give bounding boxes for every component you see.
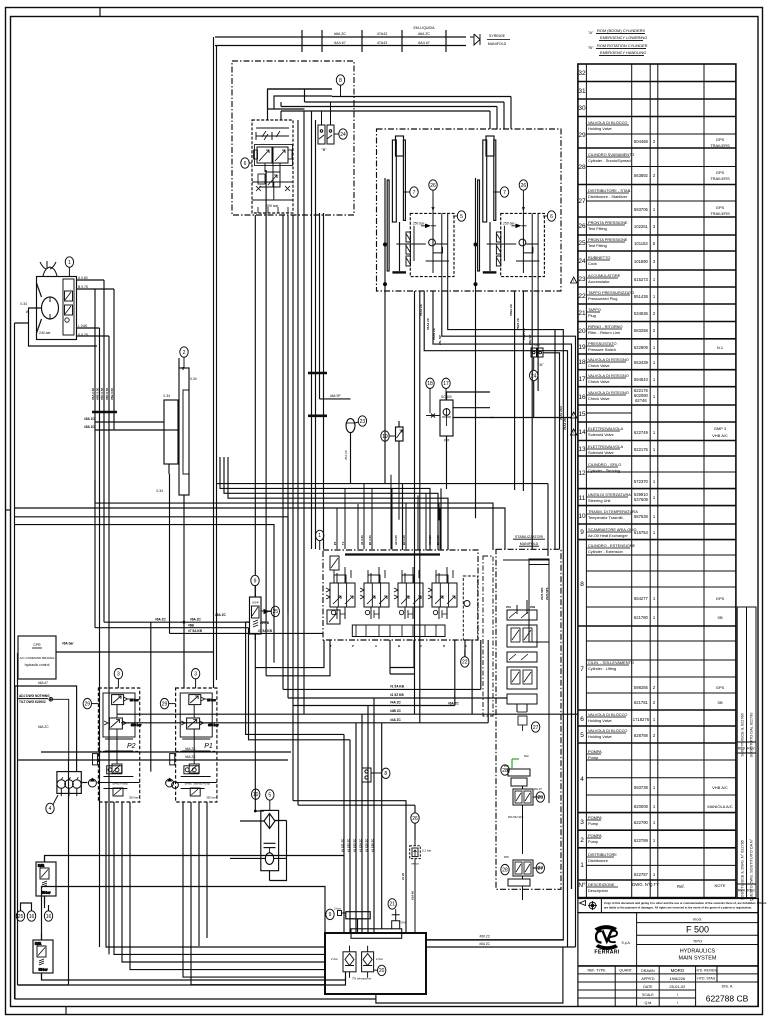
- svg-text:2: 2: [653, 685, 656, 690]
- svg-text:#6A ZC: #6A ZC: [479, 942, 490, 946]
- balloon 18: [426, 378, 434, 413]
- svg-text:MAIN SYSTEM: MAIN SYSTEM: [679, 956, 717, 962]
- svg-text:2: 2: [653, 173, 656, 178]
- svg-text:A 0.60: A 0.60: [78, 276, 88, 280]
- svg-text:#5B: #5B: [530, 605, 535, 609]
- table desc underline strokes: [587, 125, 631, 887]
- title block texts: [587, 917, 748, 1006]
- bank bottom plate: [352, 625, 445, 637]
- wire pipe top B: [215, 45, 466, 47]
- svg-text:9: 9: [329, 912, 332, 918]
- svg-text:Accumulator: Accumulator: [588, 279, 610, 284]
- svg-text:622787: 622787: [634, 872, 649, 877]
- svg-text:Plug: Plug: [588, 313, 596, 318]
- svg-text:"B": "B": [588, 45, 594, 50]
- check valve SC600 (items 17/18): [426, 392, 494, 489]
- svg-text:1: 1: [653, 360, 656, 365]
- wire right R1: [426, 291, 563, 940]
- svg-text:534636: 534636: [634, 311, 649, 316]
- svg-text:#6A ZC: #6A ZC: [185, 755, 196, 759]
- tank feed labels: [340, 839, 414, 900]
- svg-text:A2 0.50: A2 0.50: [394, 535, 398, 545]
- svg-text:#6A ZC: #6A ZC: [185, 747, 196, 751]
- svg-text:HYDRAULICS: HYDRAULICS: [680, 949, 716, 955]
- svg-text:B3 0.50: B3 0.50: [436, 535, 440, 545]
- junction dots: [384, 243, 387, 246]
- P2 valve mid: [109, 718, 122, 729]
- svg-text:8: 8: [580, 581, 584, 588]
- valve section S1: [326, 567, 355, 619]
- wire filter stair: [246, 622, 350, 740]
- svg-text:P1: P1: [204, 743, 213, 750]
- svg-text:1: 1: [653, 615, 656, 620]
- stab mid cluster: [506, 690, 543, 854]
- svg-text:EMERGENCY HANDLING: EMERGENCY HANDLING: [600, 50, 646, 55]
- svg-text:A1 0.50: A1 0.50: [360, 535, 364, 545]
- svg-text:622749: 622749: [634, 430, 649, 435]
- svg-text:27: 27: [538, 866, 544, 872]
- svg-text:621780: 621780: [634, 615, 649, 620]
- svg-text:Test Fitting: Test Fitting: [588, 226, 607, 231]
- valve V2: [273, 147, 288, 163]
- svg-text:N.1: N.1: [717, 345, 724, 350]
- svg-text:vacuo: vacuo: [411, 862, 419, 866]
- svg-text:11: 11: [579, 495, 586, 502]
- svg-text:Check Valve: Check Valve: [588, 396, 610, 401]
- balloon 27b: [536, 863, 544, 873]
- wire filter connections: [255, 810, 264, 812]
- balloon 5f: [266, 790, 274, 811]
- svg-text:#5B 0.50: #5B 0.50: [96, 387, 100, 400]
- balloon 19: [381, 431, 396, 441]
- svg-text:616754: 616754: [634, 530, 649, 535]
- balloon 5: [453, 211, 466, 221]
- svg-text:#1 #6: #1 #6: [401, 873, 405, 880]
- svg-text:350 bar: 350 bar: [206, 796, 216, 800]
- svg-text:3: 3: [580, 819, 584, 826]
- svg-text:0.34: 0.34: [156, 489, 163, 493]
- svg-text:Filter - Return Line: Filter - Return Line: [588, 330, 620, 335]
- svg-text:31: 31: [578, 88, 586, 95]
- svg-text:#5R SP: #5R SP: [528, 335, 532, 345]
- rotated wire labels below cylinders: [419, 303, 567, 430]
- svg-text:62?46: 62?46: [635, 398, 647, 403]
- svg-text:622790: 622790: [634, 820, 649, 825]
- svg-text:654277: 654277: [634, 596, 649, 601]
- svg-text:101890: 101890: [634, 259, 649, 264]
- balloon 6b: [543, 211, 556, 221]
- valve V1: [255, 145, 293, 166]
- svg-text:102261: 102261: [634, 224, 649, 229]
- valve A cross wires: [396, 226, 449, 261]
- pipe note divider: [487, 39, 510, 41]
- pilot cap right: [288, 150, 292, 159]
- svg-text:6A4 #7: 6A4 #7: [418, 41, 429, 45]
- svg-text:1: 1: [653, 514, 656, 519]
- svg-text:#5Z3 SP6: #5Z3 SP6: [545, 587, 549, 600]
- svg-text:#6A bar: #6A bar: [62, 642, 74, 646]
- svg-text:240 bar: 240 bar: [38, 331, 51, 335]
- cylinder C2 body: [483, 140, 487, 222]
- svg-text:!: !: [573, 430, 574, 435]
- coupling B body: [318, 102, 334, 144]
- wire drop from block to bus: [267, 89, 269, 120]
- svg-text:Solenoid Valve: Solenoid Valve: [588, 450, 614, 455]
- note ADJ text: [19, 694, 50, 704]
- tank check valve 2: [362, 952, 374, 972]
- svg-text:19: 19: [578, 344, 586, 351]
- svg-text:#4A ZC: #4A ZC: [390, 701, 402, 705]
- svg-text:VALVOLA DI RITEGNO: VALVOLA DI RITEGNO: [588, 373, 629, 378]
- svg-text:filter: filter: [524, 754, 529, 758]
- svg-text:#6A ZC: #6A ZC: [38, 725, 49, 729]
- wire bank drains pair: [390, 640, 414, 674]
- svg-text:#6 KB: #6 KB: [260, 621, 270, 625]
- svg-text:ELETTROVALVOLA: ELETTROVALVOLA: [588, 426, 624, 431]
- svg-text:#1 5A KB: #1 5A KB: [390, 684, 405, 688]
- svg-text:N°: N°: [578, 881, 586, 889]
- balloon 2 gearbox: [180, 347, 188, 368]
- svg-text:0.34: 0.34: [20, 302, 27, 306]
- gearbox labels: [156, 377, 196, 493]
- balloon 25L: [16, 911, 24, 921]
- balloon 3 P1: [191, 669, 199, 689]
- stab inner frame: [503, 559, 549, 803]
- bus right drops: [510, 97, 512, 130]
- svg-text:#7 5A KB: #7 5A KB: [188, 629, 203, 633]
- svg-text:Pump: Pump: [588, 755, 598, 760]
- svg-text:VALVOLA DI BLOCCO: VALVOLA DI BLOCCO: [588, 120, 627, 125]
- disclaimer row: [578, 899, 759, 913]
- svg-text:350 bar: 350 bar: [129, 796, 139, 800]
- solenoid box: [258, 174, 265, 184]
- svg-text:UNITA DI STERZATURA: UNITA DI STERZATURA: [588, 492, 631, 497]
- wire pipe top A: [215, 36, 466, 38]
- svg-text:#6A ZC: #6A ZC: [190, 618, 202, 622]
- pump valve sub-block: [63, 279, 74, 335]
- balloon 26 B: [519, 180, 527, 210]
- svg-text:#5A 5Z2 SP6: #5A 5Z2 SP6: [508, 815, 524, 819]
- tank labels: [330, 957, 384, 981]
- valve A cartridge stack: [406, 232, 410, 242]
- svg-text:#5B1 ZC: #5B1 ZC: [509, 303, 513, 316]
- svg-text:#5L SP: #5L SP: [438, 335, 442, 345]
- svg-text:26: 26: [430, 183, 436, 189]
- svg-text:1: 1: [653, 479, 656, 484]
- svg-text:24: 24: [340, 132, 346, 138]
- wire stair 5: [95, 480, 493, 550]
- wire top pipes down-left pair: [213, 37, 215, 688]
- cooler fan oval: [265, 853, 273, 865]
- tank top plate: [351, 929, 402, 939]
- svg-text:594543: 594543: [634, 377, 649, 382]
- balloon 23: [355, 416, 367, 426]
- svg-text:7: 7: [413, 190, 416, 196]
- wire right R3: [433, 291, 572, 889]
- balloon 17: [442, 378, 450, 400]
- junction bar c1: [308, 372, 327, 375]
- wire bus low1: [41, 751, 291, 753]
- svg-text:Pump: Pump: [588, 839, 598, 844]
- pump circle: [42, 297, 59, 319]
- svg-text:Test Fitting: Test Fitting: [588, 243, 607, 248]
- svg-text:"A": "A": [538, 362, 544, 367]
- svg-text:1: 1: [653, 377, 656, 382]
- svg-text:2 bar: 2 bar: [330, 957, 339, 961]
- svg-text:621781: 621781: [634, 700, 649, 705]
- accumulator (item 23): [346, 419, 355, 484]
- balloon 1 pump: [65, 257, 73, 277]
- valve B through lines: [532, 213, 538, 291]
- svg-text:DESCRIZIONE: DESCRIZIONE: [588, 882, 615, 887]
- tank body: [325, 933, 426, 994]
- svg-text:VHB A/C: VHB A/C: [712, 433, 728, 438]
- svg-text:LV/R: LV/R: [35, 942, 41, 946]
- pipe joint ticks: [302, 30, 446, 52]
- svg-text:26: 26: [412, 816, 418, 822]
- wire bank to stab: [464, 640, 466, 657]
- svg-text:3: 3: [194, 672, 197, 678]
- pilot cap left: [254, 150, 258, 159]
- svg-text:Pump: Pump: [588, 821, 598, 826]
- svg-text:1: 1: [580, 862, 584, 869]
- balloon 4: [46, 795, 58, 814]
- warning triangle row 15: [571, 412, 577, 418]
- bank top dense feed wires: [337, 475, 440, 551]
- svg-text:POMPA: POMPA: [588, 815, 602, 820]
- wire to vacuum and tank: [293, 801, 415, 933]
- wire bus mid group: [283, 688, 481, 690]
- svg-text:17: 17: [578, 376, 586, 383]
- svg-text:29: 29: [162, 701, 168, 707]
- svg-text:820008: 820008: [634, 804, 649, 809]
- svg-text:GPS: GPS: [716, 205, 725, 210]
- svg-text:Solenoid Valve: Solenoid Valve: [588, 432, 614, 437]
- svg-text:16: 16: [46, 914, 52, 920]
- svg-text:622909: 622909: [634, 345, 649, 350]
- svg-text:PRESSOSTATO: PRESSOSTATO: [588, 341, 617, 346]
- svg-text:TRAILERS: TRAILERS: [710, 143, 730, 148]
- svg-text:SYRINGE: SYRINGE: [489, 34, 506, 38]
- balloon 29 P1: [160, 698, 175, 708]
- svg-text:MANIFOLD: MANIFOLD: [520, 542, 539, 546]
- svg-text:1: 1: [653, 495, 656, 500]
- svg-text:GPS: GPS: [716, 596, 725, 601]
- svg-text:26: 26: [578, 223, 586, 230]
- svg-text:MANIFOLD: MANIFOLD: [488, 42, 507, 46]
- svg-text:22: 22: [578, 293, 586, 300]
- svg-text:29: 29: [85, 701, 91, 707]
- svg-text:21: 21: [578, 310, 586, 317]
- P2 pump circle: [88, 779, 96, 787]
- svg-text:Pressurized Plug: Pressurized Plug: [588, 296, 617, 301]
- svg-text:Cylinder - Lifting: Cylinder - Lifting: [588, 666, 616, 671]
- svg-text:TRAILERS: TRAILERS: [710, 176, 730, 181]
- relief arrows top: [262, 131, 280, 140]
- svg-text:P: P: [352, 644, 354, 648]
- wire bus top1: [104, 621, 250, 623]
- svg-text:5: 5: [460, 214, 463, 220]
- svg-text:EMERGENCY LOWERING: EMERGENCY LOWERING: [600, 35, 647, 40]
- valve section S3: [394, 567, 423, 619]
- wire right R5 (from A coupling): [543, 353, 560, 549]
- CVS Ferrari logo: [594, 925, 630, 955]
- svg-text:#5A ZC: #5A ZC: [344, 449, 348, 460]
- svg-text:4: 4: [49, 806, 52, 812]
- svg-text:/: /: [677, 1000, 679, 1005]
- svg-text:#7#: #7#: [444, 439, 450, 443]
- svg-text:553439: 553439: [634, 360, 649, 365]
- block bottom cells: [252, 182, 293, 200]
- filter diamond: [264, 814, 275, 829]
- cylinder C1 body: [392, 140, 396, 222]
- svg-text:GPS: GPS: [716, 170, 725, 175]
- balloon 24: [530, 370, 538, 380]
- svg-text:SOSTITUITO DAL 622790: SOSTITUITO DAL 622790: [750, 713, 754, 758]
- svg-text:mod.: mod.: [693, 917, 702, 922]
- wire left frame box: [15, 686, 77, 999]
- svg-text:hydraulic control: hydraulic control: [25, 663, 50, 667]
- svg-text:A/C COMMAND BRAKES: A/C COMMAND BRAKES: [20, 656, 55, 660]
- svg-text:2: 2: [653, 139, 656, 144]
- svg-text:POMPA: POMPA: [588, 749, 602, 754]
- svg-text:2: 2: [653, 700, 656, 705]
- svg-text:B1 0.50: B1 0.50: [368, 535, 372, 545]
- drive shaft fork: [43, 267, 57, 276]
- svg-text:572370: 572370: [634, 479, 649, 484]
- svg-text:ACCUMULATORE: ACCUMULATORE: [588, 273, 621, 278]
- svg-text:DIS. A: DIS. A: [722, 985, 733, 989]
- wire left second: [18, 653, 69, 985]
- svg-text:#6A ZC: #6A ZC: [448, 702, 460, 706]
- junction bar c2: [308, 414, 327, 417]
- svg-text:47A43: 47A43: [377, 32, 387, 36]
- wire left main down: [15, 323, 376, 999]
- svg-text:MORO: MORO: [671, 968, 685, 973]
- balloon 9s: [326, 909, 334, 919]
- svg-text:6A4 #7: 6A4 #7: [334, 41, 345, 45]
- svg-text:QUANT.: QUANT.: [619, 969, 632, 973]
- svg-text:1: 1: [653, 872, 656, 877]
- balloon 16: [27, 911, 35, 921]
- svg-text:#6B: #6B: [188, 623, 195, 627]
- svg-text:DATE: DATE: [643, 985, 653, 989]
- wire cylA drop pair: [415, 291, 420, 723]
- svg-text:1: 1: [653, 596, 656, 601]
- valve A through lines: [442, 213, 448, 291]
- svg-text:#6L #7: #6L #7: [534, 787, 542, 791]
- note pointer circle: [49, 698, 69, 760]
- svg-text:VHB A/C: VHB A/C: [712, 785, 728, 790]
- svg-text:SCALE: SCALE: [642, 993, 654, 997]
- svg-text:ROM (BOOM) CYLINDERS: ROM (BOOM) CYLINDERS: [597, 28, 645, 33]
- P2 wires: [105, 705, 133, 764]
- svg-text:Air-Oil Heat Exchanger: Air-Oil Heat Exchanger: [588, 533, 628, 538]
- svg-text:RIFINO - RITORNO: RIFINO - RITORNO: [588, 324, 623, 329]
- bus nest rectangle: [268, 89, 333, 109]
- svg-text:"A": "A": [588, 30, 594, 35]
- balloon 28b: [501, 864, 509, 874]
- svg-text:2: 2: [653, 328, 656, 333]
- svg-text:Cock: Cock: [588, 261, 597, 266]
- holding valve block B (dashed): [501, 213, 545, 276]
- svg-text:Servo Turbina Pump: Servo Turbina Pump: [184, 782, 210, 786]
- wire tank right outputs: [376, 940, 576, 1003]
- svg-text:23: 23: [360, 419, 366, 425]
- wire bus top3: [170, 632, 324, 634]
- svg-text:2: 2: [580, 837, 584, 844]
- svg-text:Holding Valve: Holding Valve: [588, 718, 612, 723]
- svg-text:FERRARI: FERRARI: [594, 950, 619, 956]
- svg-text:1: 1: [653, 447, 656, 452]
- table dwg numbers and qty: [632, 139, 684, 889]
- svg-text:GPS: GPS: [716, 685, 725, 690]
- stab valve stack: [507, 600, 537, 731]
- svg-text:563892: 563892: [634, 173, 649, 178]
- svg-text:TILT DWG 622002: TILT DWG 622002: [19, 700, 46, 704]
- svg-text:2: 2: [653, 733, 656, 738]
- tick mark bottom: [65, 1007, 67, 1015]
- svg-text:REF. TYPE: REF. TYPE: [587, 969, 606, 973]
- coupling component mid: [362, 768, 382, 782]
- valve B cross wires: [487, 226, 540, 261]
- wire bottom long: [18, 759, 346, 985]
- svg-text:SB: SB: [717, 615, 723, 620]
- vacuum valve: [410, 841, 421, 933]
- svg-text:26: 26: [521, 183, 527, 189]
- svg-text:#1 5Z2 ZC: #1 5Z2 ZC: [346, 839, 350, 852]
- svg-text:6: 6: [580, 716, 584, 723]
- svg-text:1: 1: [653, 820, 656, 825]
- stabilizer enclosure: [496, 549, 561, 889]
- wire center bundle: [311, 111, 313, 549]
- balloon 8: [336, 75, 344, 97]
- svg-text:16: 16: [29, 914, 35, 920]
- svg-text:19/8/226: 19/8/226: [670, 976, 686, 981]
- balloon 7 A: [404, 187, 419, 197]
- balloon 26v: [411, 813, 419, 823]
- svg-text:Cylinder - Sterzing: Cylinder - Sterzing: [588, 468, 620, 473]
- wire p1 drains: [183, 802, 325, 977]
- pressure switch (item 19): [396, 421, 404, 484]
- svg-text:Distributore - Stabilizer: Distributore - Stabilizer: [588, 194, 628, 199]
- wire gauge feed: [150, 622, 152, 771]
- svg-text:27: 27: [578, 198, 586, 205]
- svg-text:12: 12: [578, 470, 586, 477]
- svg-text:2 bar: 2 bar: [375, 957, 384, 961]
- coupling A (item 24): [531, 348, 543, 370]
- svg-text:18: 18: [578, 359, 586, 366]
- svg-text:S.p.A.: S.p.A.: [622, 941, 631, 945]
- balloon 21: [388, 899, 396, 912]
- bank internals left: [330, 556, 339, 570]
- svg-text:#6A ZC: #6A ZC: [215, 613, 227, 617]
- svg-text:504468: 504468: [634, 139, 649, 144]
- bank top bus (thick): [345, 553, 440, 555]
- svg-text:L 0.60: L 0.60: [78, 324, 87, 328]
- table column lines: [585, 64, 587, 898]
- svg-text:Pressure Switch: Pressure Switch: [588, 347, 616, 352]
- svg-text:551438: 551438: [634, 294, 649, 299]
- svg-text:CILIN. - SOLLEVAMENTO: CILIN. - SOLLEVAMENTO: [588, 660, 634, 665]
- svg-text:Check Valve: Check Valve: [588, 379, 610, 384]
- svg-text:SC 600: SC 600: [441, 395, 452, 399]
- svg-text:1: 1: [653, 430, 656, 435]
- wire bundle verticals: [94, 289, 96, 628]
- svg-text:1: 1: [318, 533, 321, 539]
- svg-text:25 bar: 25 bar: [207, 698, 216, 702]
- arrow symbol: [470, 34, 480, 45]
